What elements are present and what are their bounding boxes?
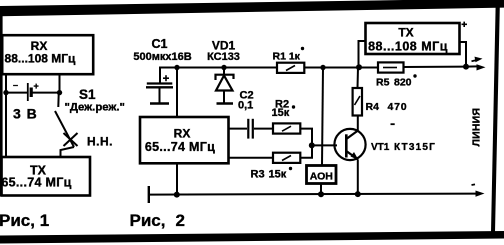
svg-text:S1: S1	[79, 87, 96, 102]
svg-text:R1 1к: R1 1к	[273, 51, 301, 63]
svg-text:65...74 МГц: 65...74 МГц	[1, 176, 71, 190]
svg-text:VT1: VT1	[371, 142, 390, 153]
svg-text:RX: RX	[174, 127, 191, 141]
svg-text:+: +	[34, 81, 39, 91]
svg-text:TX: TX	[398, 26, 413, 40]
svg-text:C1: C1	[152, 37, 168, 51]
svg-text:65...74 МГц: 65...74 МГц	[145, 140, 215, 154]
svg-text:3 В: 3 В	[13, 106, 38, 122]
svg-text:820: 820	[394, 77, 412, 89]
svg-text:470: 470	[388, 101, 408, 113]
svg-text:R3: R3	[251, 169, 265, 181]
svg-text:2: 2	[176, 211, 185, 230]
svg-text:500мкх16В: 500мкх16В	[133, 51, 191, 63]
svg-text:R4: R4	[366, 101, 380, 113]
svg-text:КТ315Г: КТ315Г	[394, 142, 436, 153]
svg-text:R5: R5	[376, 77, 390, 89]
svg-text:Рис,: Рис,	[130, 211, 166, 230]
svg-text:Н.Н.: Н.Н.	[87, 135, 113, 149]
svg-text:–: –	[13, 80, 18, 90]
svg-text:"Деж.реж.": "Деж.реж."	[65, 102, 125, 114]
svg-text:15к: 15к	[269, 169, 287, 181]
svg-text:88...108 МГц: 88...108 МГц	[368, 40, 448, 54]
svg-text:Рис, 1: Рис, 1	[0, 211, 49, 230]
svg-text:КС133: КС133	[207, 51, 240, 63]
svg-text:15к: 15к	[272, 107, 290, 119]
svg-text:ЛИНИЯ: ЛИНИЯ	[471, 108, 483, 147]
svg-text:88...108 МГц: 88...108 МГц	[5, 52, 77, 66]
svg-text:АОН: АОН	[310, 171, 333, 183]
svg-text:0,1: 0,1	[238, 100, 253, 112]
